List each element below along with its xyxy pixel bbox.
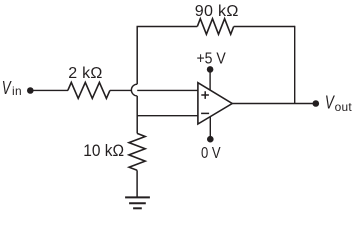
node Vout terminal dot <box>313 100 320 107</box>
svg-text:in: in <box>12 84 22 98</box>
svg-text:10 kΩ: 10 kΩ <box>83 141 124 160</box>
wire op-amp to 0V <box>209 116 211 139</box>
wire crossover hop <box>131 84 137 96</box>
wire R1 to crossover <box>110 89 132 91</box>
node +5V dot <box>207 66 214 73</box>
svg-text:90 kΩ: 90 kΩ <box>195 2 239 20</box>
label R3 value 10 kOhm <box>83 141 124 160</box>
svg-text:+5 V: +5 V <box>196 50 226 67</box>
wire crossover to op-amp plus input <box>137 89 198 91</box>
resistor R1 2 kOhm <box>68 82 110 98</box>
wire R3 to ground <box>136 170 138 197</box>
node Vin label <box>2 77 22 98</box>
wire top left to R2 <box>137 26 198 28</box>
label 0 V <box>201 145 221 162</box>
wire Vin to R1 <box>30 89 68 91</box>
wire feedback vertical left <box>136 27 138 85</box>
svg-text:out: out <box>335 100 352 114</box>
node Vin terminal dot <box>27 87 34 94</box>
node Vout label <box>325 91 352 113</box>
wire op-amp minus input <box>137 115 198 117</box>
node 0V dot <box>207 136 214 143</box>
label R2 value 90 kOhm <box>195 2 239 20</box>
label +5 V <box>196 50 226 67</box>
ground <box>125 197 150 208</box>
op-amp minus input marker <box>201 112 209 114</box>
wire output <box>232 103 316 105</box>
resistor R3 10 kOhm <box>129 133 145 170</box>
op-amp U1 <box>198 83 232 124</box>
svg-text:V: V <box>325 91 335 112</box>
resistor R2 90 kOhm <box>197 19 233 35</box>
svg-text:0 V: 0 V <box>201 145 221 162</box>
op-amp plus input marker <box>201 91 209 99</box>
wire R2 to right corner <box>234 26 295 28</box>
svg-text:2 kΩ: 2 kΩ <box>68 65 102 82</box>
wire +5V to op-amp <box>209 69 211 91</box>
wire feedback vertical right <box>294 26 296 104</box>
svg-text:V: V <box>2 77 12 98</box>
label R1 value 2 kOhm <box>68 65 102 82</box>
wire crossover to R3 <box>136 96 138 133</box>
